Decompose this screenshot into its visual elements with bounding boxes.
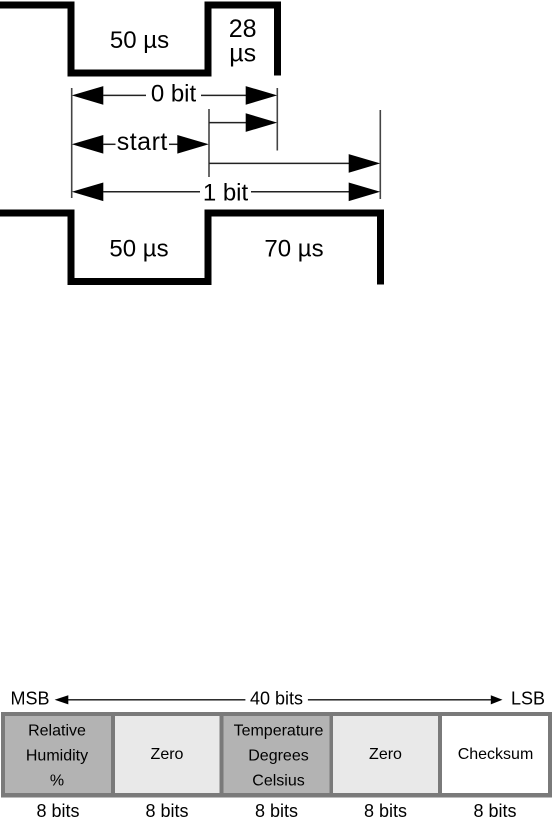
svg-text:8 bits: 8 bits — [145, 801, 188, 820]
svg-text:50 µs: 50 µs — [110, 27, 169, 54]
table outer border — [1, 712, 552, 798]
dimension arrow: 40 bits (MSB to LSB) — [55, 695, 503, 704]
svg-text:Relative: Relative — [28, 723, 86, 740]
extension tick at edge C (x=277.3) — [276, 88, 278, 151]
svg-text:70 µs: 70 µs — [264, 236, 323, 263]
svg-text:µs: µs — [229, 40, 256, 68]
extension tick at edge D (x=380.3) — [379, 110, 381, 199]
extension tick at edge B (x=209) — [208, 109, 210, 177]
extension tick at edge A (x=71.7) — [71, 88, 73, 198]
svg-text:Zero: Zero — [369, 746, 402, 763]
svg-text:1 bit: 1 bit — [203, 179, 249, 206]
svg-text:8 bits: 8 bits — [255, 801, 298, 820]
svg-text:MSB: MSB — [11, 689, 50, 709]
dimension arrow: 28 us width (edge B to edge C) — [209, 113, 277, 132]
table cell 5: Checksum (8 bits) — [442, 716, 548, 793]
dimension arrow: 1 bit (edge A to edge D) — [72, 183, 380, 202]
svg-text:%: % — [50, 773, 64, 790]
svg-text:Zero: Zero — [151, 746, 184, 763]
svg-text:8 bits: 8 bits — [364, 801, 407, 820]
svg-text:0 bit: 0 bit — [151, 80, 197, 107]
svg-text:50 µs: 50 µs — [109, 235, 168, 262]
table cell 1: Relative Humidity % (8 bits) — [5, 716, 111, 793]
dimension arrow: start (edge A to edge B) — [72, 135, 209, 154]
svg-text:Temperature: Temperature — [234, 723, 324, 740]
svg-text:40 bits: 40 bits — [250, 689, 303, 709]
svg-text:8 bits: 8 bits — [473, 801, 516, 820]
svg-text:Checksum: Checksum — [458, 746, 534, 763]
svg-text:start: start — [117, 128, 168, 156]
svg-text:Humidity: Humidity — [26, 748, 88, 765]
table cell 2: Zero (8 bits) — [115, 716, 220, 793]
waveform W2: 1-bit frame (50 us low, 70 us high) — [0, 213, 381, 285]
table cell 3: Temperature Degrees Celsius (8 bits) — [224, 716, 330, 793]
svg-text:Celsius: Celsius — [252, 773, 304, 790]
svg-text:LSB: LSB — [511, 689, 545, 709]
svg-text:8 bits: 8 bits — [36, 801, 79, 820]
svg-text:Degrees: Degrees — [248, 748, 308, 765]
dimension arrow: 0 bit (edge A to edge C) — [72, 86, 277, 105]
table cell 4: Zero (8 bits) — [333, 716, 438, 793]
waveform W1: 0-bit frame (50 us low, 28 us high) — [0, 5, 278, 76]
dimension arrow: 70 us width (edge B to edge D) — [209, 154, 380, 173]
